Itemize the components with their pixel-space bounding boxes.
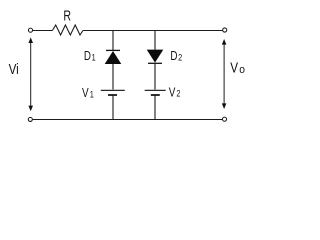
label Vo: [230, 59, 245, 76]
svg-text:V: V: [82, 87, 89, 100]
svg-text:1: 1: [90, 88, 94, 99]
svg-text:R: R: [63, 7, 71, 24]
wire: D1 branch from top rail to diode cathode: [112, 31, 114, 51]
svg-text:D: D: [170, 50, 177, 63]
svg-text:2: 2: [178, 51, 182, 62]
wire: top rail left segment (input terminal to resistor): [33, 30, 53, 32]
svg-text:2: 2: [176, 88, 180, 99]
node: output bottom terminal: [222, 117, 226, 121]
Vi measurement arrow (input voltage): [28, 37, 33, 111]
battery V1 (long plate top, short plate bottom): [101, 90, 125, 95]
wire: battery V2 to bottom rail: [154, 95, 156, 120]
svg-text:Vi: Vi: [9, 61, 19, 78]
wire: D2 branch from top rail to diode anode: [154, 31, 156, 50]
Vo measurement arrow (output voltage): [222, 39, 227, 109]
wire: top rail right segment (resistor to output terminal): [83, 30, 223, 32]
diode D2 (pointing down, cathode bar on bottom): [147, 50, 164, 64]
resistor R: [52, 25, 83, 35]
diode D1 (pointing up, cathode bar on top): [105, 50, 122, 64]
svg-text:D: D: [84, 50, 91, 63]
wire: D1 anode to battery V1: [112, 64, 114, 90]
svg-text:o: o: [239, 64, 245, 76]
node: input top terminal: [28, 28, 32, 32]
node: output top terminal: [223, 28, 227, 32]
label D1: [84, 50, 96, 63]
svg-text:1: 1: [92, 51, 96, 62]
battery V2 (long plate top, short plate bottom): [145, 90, 166, 95]
svg-text:V: V: [169, 86, 176, 99]
svg-text:V: V: [230, 59, 238, 76]
label V1: [82, 87, 94, 100]
label V2: [169, 86, 181, 99]
wire: bottom rail: [33, 119, 223, 121]
label Vi: [9, 61, 19, 78]
label D2: [170, 50, 182, 63]
wire: D2 cathode to battery V2: [154, 63, 156, 89]
node: input bottom terminal: [28, 117, 32, 121]
wire: battery V1 to bottom rail: [112, 95, 114, 120]
